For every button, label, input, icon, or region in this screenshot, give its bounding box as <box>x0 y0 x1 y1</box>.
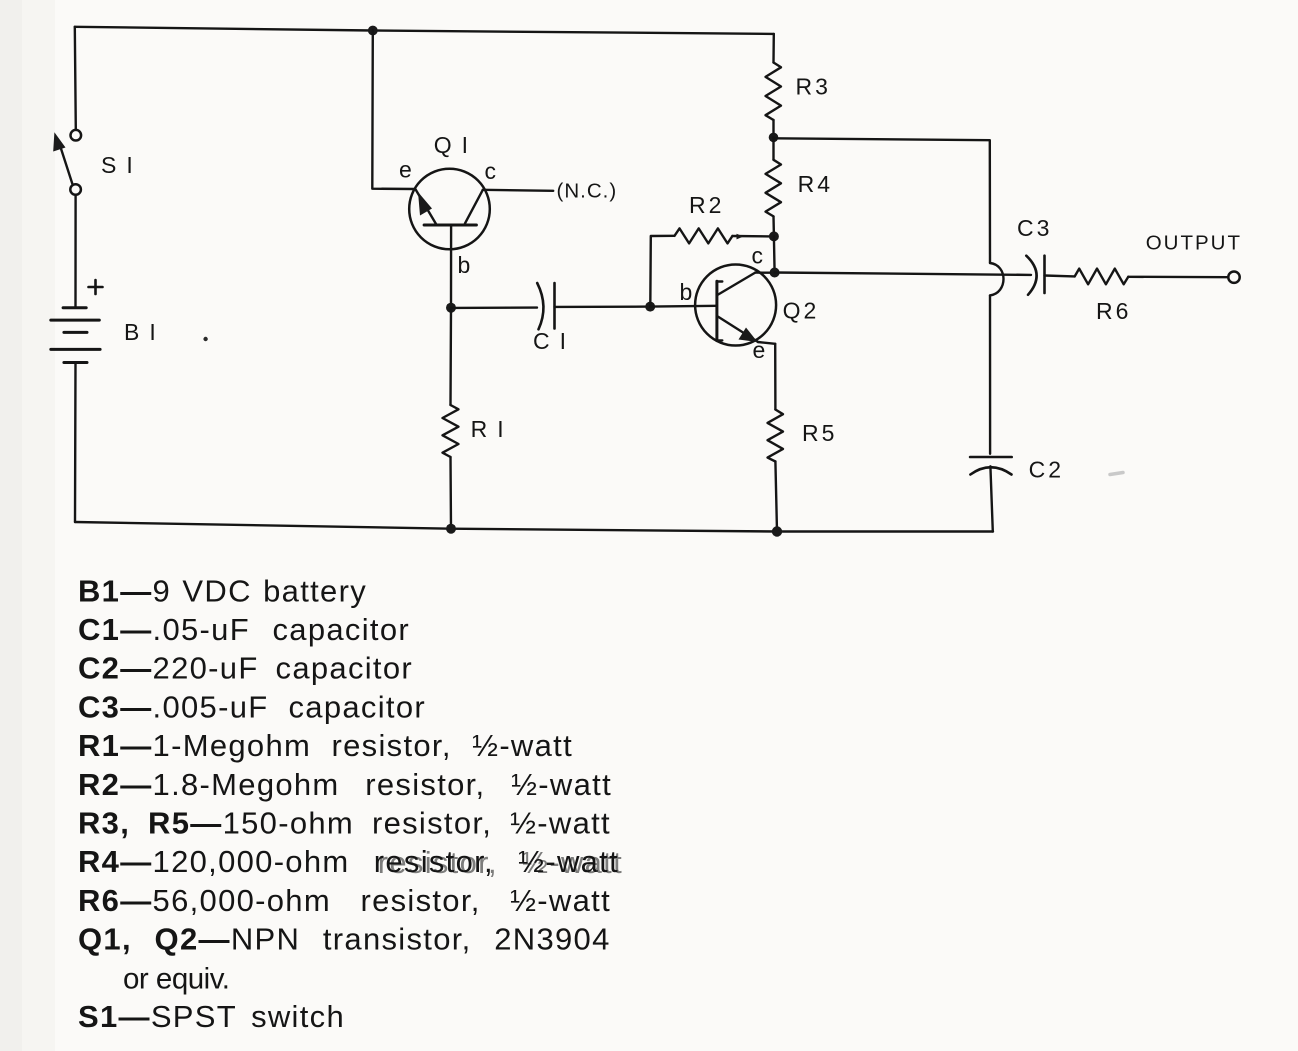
svg-text:C3: C3 <box>1017 215 1052 241</box>
wire R2 riser <box>650 236 674 307</box>
battery B1 <box>51 308 100 363</box>
battery B1 plus sign <box>89 280 103 294</box>
svg-text:e: e <box>399 157 412 183</box>
wire C3 to R6 <box>1045 274 1075 277</box>
svg-text:or equiv.: or equiv. <box>123 962 229 995</box>
wire Q2 base <box>650 305 717 308</box>
svg-text:R5: R5 <box>802 420 837 446</box>
svg-text:b: b <box>458 252 471 278</box>
svg-text:R I: R I <box>471 416 506 442</box>
svg-text:c: c <box>485 158 497 184</box>
resistor R6 <box>1075 269 1129 285</box>
output terminal <box>1228 272 1239 283</box>
wire C1 to Q2 base node <box>555 305 651 308</box>
node R3 R4 junction <box>769 133 779 143</box>
capacitor C2 <box>970 457 1012 475</box>
svg-text:R2—1.8-Megohm resistor, ½-watt: R2—1.8-Megohm resistor, ½-watt <box>78 767 612 802</box>
wire Q1 collector to N.C. <box>483 190 554 191</box>
resistor R4 <box>766 137 782 236</box>
wire switch to battery <box>74 195 76 308</box>
node top junction <box>368 26 378 36</box>
wire hop over collector wire <box>990 263 1004 295</box>
svg-text:(N.C.): (N.C.) <box>557 180 618 203</box>
wire left from top rail to switch <box>75 27 76 130</box>
capacitor C1 <box>537 283 554 329</box>
wire top rail <box>75 27 774 34</box>
node R2 R4 junction <box>769 231 779 241</box>
svg-text:C3—.005-uF capacitor: C3—.005-uF capacitor <box>78 689 426 724</box>
stray smudge <box>1110 473 1123 475</box>
resistor R1 <box>443 308 459 529</box>
svg-text:R6—56,000-ohm resistor, ½-watt: R6—56,000-ohm resistor, ½-watt <box>78 883 611 918</box>
resistor R3 <box>766 34 782 137</box>
svg-text:C I: C I <box>533 328 568 354</box>
svg-text:b: b <box>680 279 693 305</box>
svg-text:R2: R2 <box>689 192 724 218</box>
arrow tick on R2 wire <box>737 234 744 240</box>
wire junction to right vertical <box>774 138 991 263</box>
svg-text:B1—9 VDC battery: B1—9 VDC battery <box>78 573 367 608</box>
node Q2 base <box>645 302 655 312</box>
stray dot <box>203 337 207 341</box>
svg-text:S1—SPST switch: S1—SPST switch <box>78 999 345 1034</box>
wire hop to C2 <box>989 295 991 453</box>
parts list <box>78 573 623 1034</box>
wire top junction down to Q1 emitter <box>372 31 415 190</box>
svg-text:Q I: Q I <box>434 132 470 158</box>
svg-text:C1—.05-uF capacitor: C1—.05-uF capacitor <box>78 612 410 647</box>
wire node to C1 <box>451 306 537 309</box>
wire battery to bottom rail <box>74 363 77 523</box>
svg-text:C2: C2 <box>1029 457 1064 483</box>
svg-text:e: e <box>753 337 766 363</box>
svg-text:Q2: Q2 <box>783 298 820 324</box>
node R5 bottom <box>772 526 782 536</box>
svg-text:R4: R4 <box>798 171 833 197</box>
svg-text:R3, R5—150-ohm resistor, ½-wat: R3, R5—150-ohm resistor, ½-watt <box>78 806 611 841</box>
wire bottom rail <box>75 522 993 532</box>
resistor R2 <box>675 228 733 243</box>
transistor Q1 <box>409 169 490 308</box>
svg-text:OUTPUT: OUTPUT <box>1146 232 1242 255</box>
svg-text:B I: B I <box>124 319 158 345</box>
svg-text:Q1, Q2—NPN transistor, 2N3904: Q1, Q2—NPN transistor, 2N3904 <box>78 922 611 957</box>
node R1 bottom <box>446 524 456 534</box>
wire R4 node to collector node <box>773 236 776 272</box>
capacitor C3 <box>1026 256 1044 295</box>
resistor R5 <box>768 344 784 532</box>
svg-text:C2—220-uF capacitor: C2—220-uF capacitor <box>78 651 413 686</box>
svg-text:S I: S I <box>101 152 135 178</box>
wire C2 to bottom rail <box>990 466 992 531</box>
svg-text:c: c <box>752 243 764 269</box>
node Q2 collector <box>770 268 780 278</box>
svg-text:R6: R6 <box>1096 298 1131 324</box>
svg-text:R1—1-Megohm resistor, ½-watt: R1—1-Megohm resistor, ½-watt <box>78 728 573 763</box>
wire collector node to C3 <box>775 273 1031 275</box>
switch S1 <box>53 130 81 195</box>
transistor Q2 <box>695 265 776 346</box>
svg-text:R3: R3 <box>796 74 831 100</box>
wire R2 to node <box>732 235 771 238</box>
node Q1 base <box>446 303 456 313</box>
wire R6 to output terminal <box>1128 276 1228 279</box>
